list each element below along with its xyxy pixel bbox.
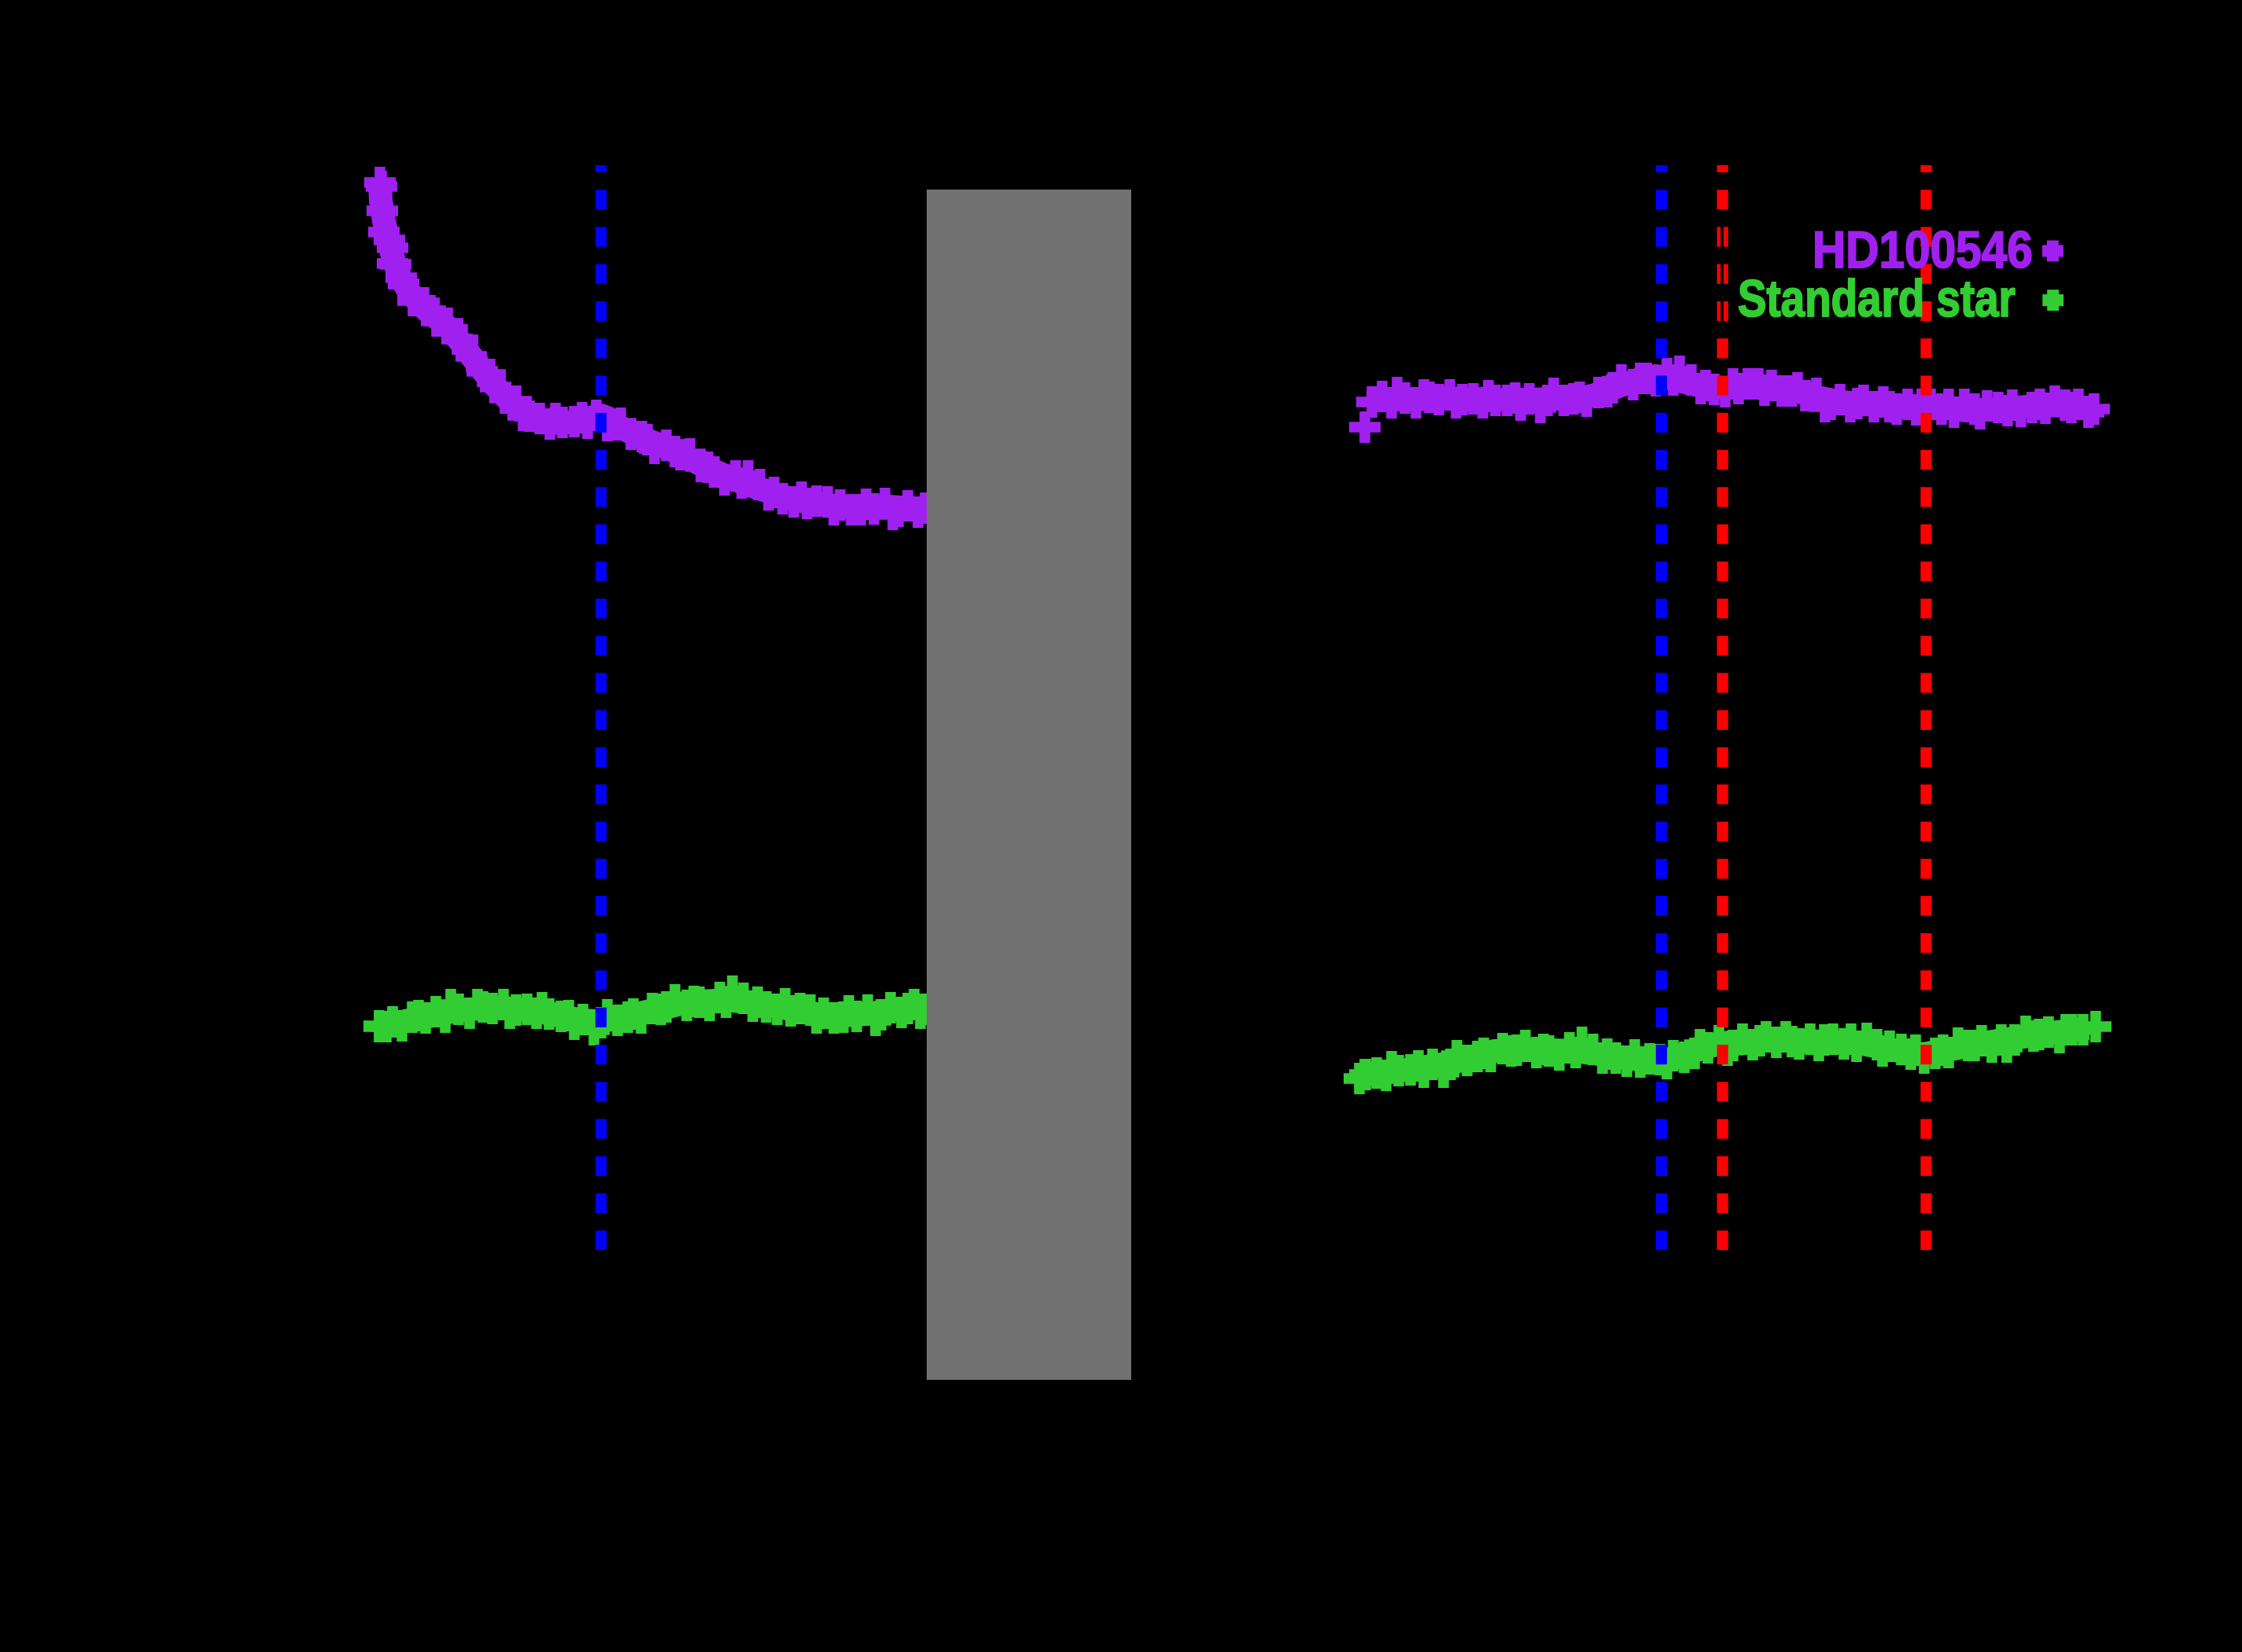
HD100546 spectrum right segment: [1349, 356, 2110, 443]
blue dashed line left panel: [596, 165, 607, 1250]
legend box border segment (black) over red line 1: [1720, 222, 1724, 324]
legend symbol Standard star: [2042, 289, 2063, 311]
legend symbol HD100546: [2042, 241, 2063, 262]
blue dashed line right panel: [1656, 165, 1667, 1250]
gray masked wavelength region: [927, 190, 1131, 1380]
HD100546 spectrum left segment: [364, 167, 941, 530]
Standard star spectrum right segment: [1344, 1011, 2111, 1094]
Standard star spectrum left segment: [363, 975, 940, 1045]
red dashed line 2 right panel: [1920, 165, 1931, 1250]
red dashed line 1 right panel: [1717, 165, 1728, 1250]
svg-text:Standard star: Standard star: [1738, 269, 2015, 327]
